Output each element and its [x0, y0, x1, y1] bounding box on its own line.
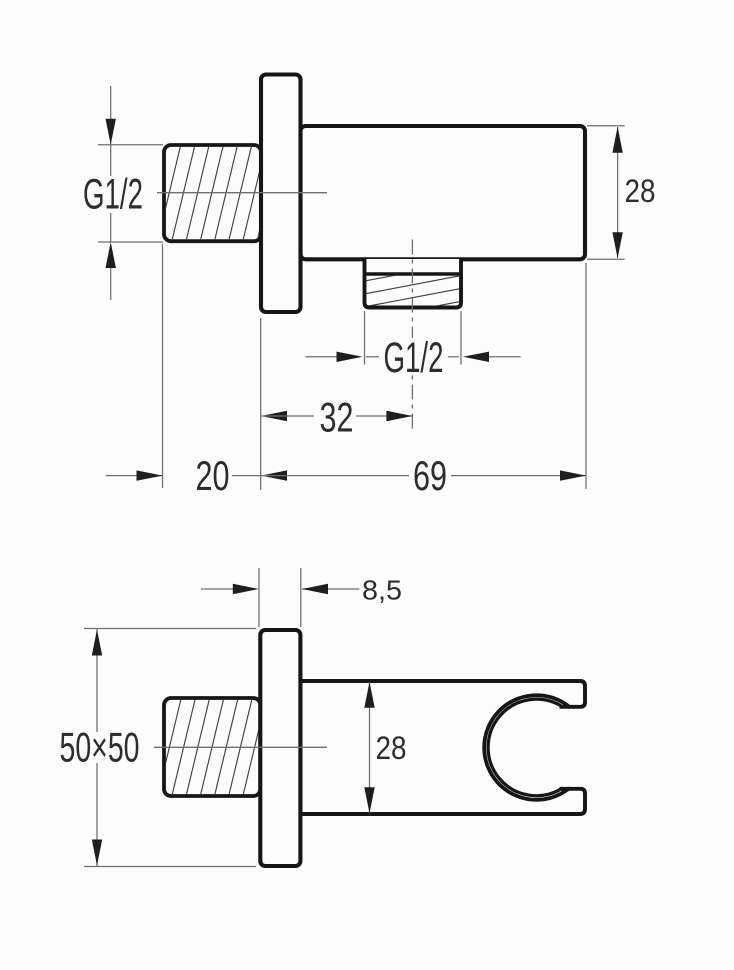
body left closing edges — [298, 681, 302, 814]
inlet thread hatch — [144, 147, 280, 240]
svg-text:28: 28 — [376, 730, 407, 766]
svg-text:50×50: 50×50 — [60, 724, 140, 771]
svg-text:20: 20 — [196, 452, 230, 499]
holder ring inner arc — [488, 699, 562, 796]
inlet thread hatch (bottom view) — [144, 700, 280, 794]
wall plate escutcheon (bottom view) — [260, 630, 300, 866]
body outline top half (bottom view) — [300, 681, 585, 707]
dimension 50x50 line and arrows — [96, 629, 98, 732]
pipe centre line (bottom view) — [154, 746, 327, 748]
holder ring outer arc — [484, 695, 569, 800]
svg-text:G1/2: G1/2 — [384, 334, 444, 382]
wall plate escutcheon (top view) — [261, 75, 301, 313]
svg-text:8,5: 8,5 — [362, 574, 402, 605]
svg-text:28: 28 — [625, 173, 656, 209]
svg-text:69: 69 — [413, 452, 447, 499]
label G1/2 (outlet) — [380, 338, 448, 374]
dimension 28 extension lines — [587, 125, 625, 127]
outlet thread relief line — [365, 272, 461, 276]
dimension G1/2 outlet arrows — [306, 356, 338, 358]
dimension G1/2 extension lines — [98, 144, 163, 146]
dimension G1/2 arrows and lines — [110, 86, 112, 145]
body (top view) — [301, 126, 586, 259]
extension line (wall plate face) — [260, 318, 262, 490]
outlet thread hatch — [366, 263, 459, 319]
dimension 8,5 extension lines — [258, 568, 260, 627]
threaded inlet pipe (bottom view) — [164, 698, 260, 796]
pipe centre line (top view) — [157, 192, 327, 194]
outlet centre line (dash-dot) — [411, 240, 413, 433]
dimension 28 line and arrows (bottom view) — [369, 682, 371, 813]
body outline bottom half (bottom view) — [300, 789, 585, 814]
svg-text:G1/2: G1/2 — [83, 171, 143, 219]
threaded inlet pipe (top view) — [164, 145, 261, 241]
dimension 8,5 arrows — [201, 588, 233, 590]
dimension 50x50 extension lines — [84, 628, 256, 630]
dimension 20 line and arrow — [106, 475, 163, 477]
dimension 32 line and arrows — [261, 411, 287, 421]
extension line (body end) — [585, 263, 587, 489]
outlet extension lines — [364, 311, 366, 365]
svg-text:32: 32 — [320, 394, 354, 441]
outlet port G1/2 (top view) — [365, 259, 462, 308]
extension line (pipe end) — [162, 244, 164, 488]
dimension 28 line and arrows — [617, 127, 619, 258]
dimension 69 line and arrows — [261, 470, 287, 480]
